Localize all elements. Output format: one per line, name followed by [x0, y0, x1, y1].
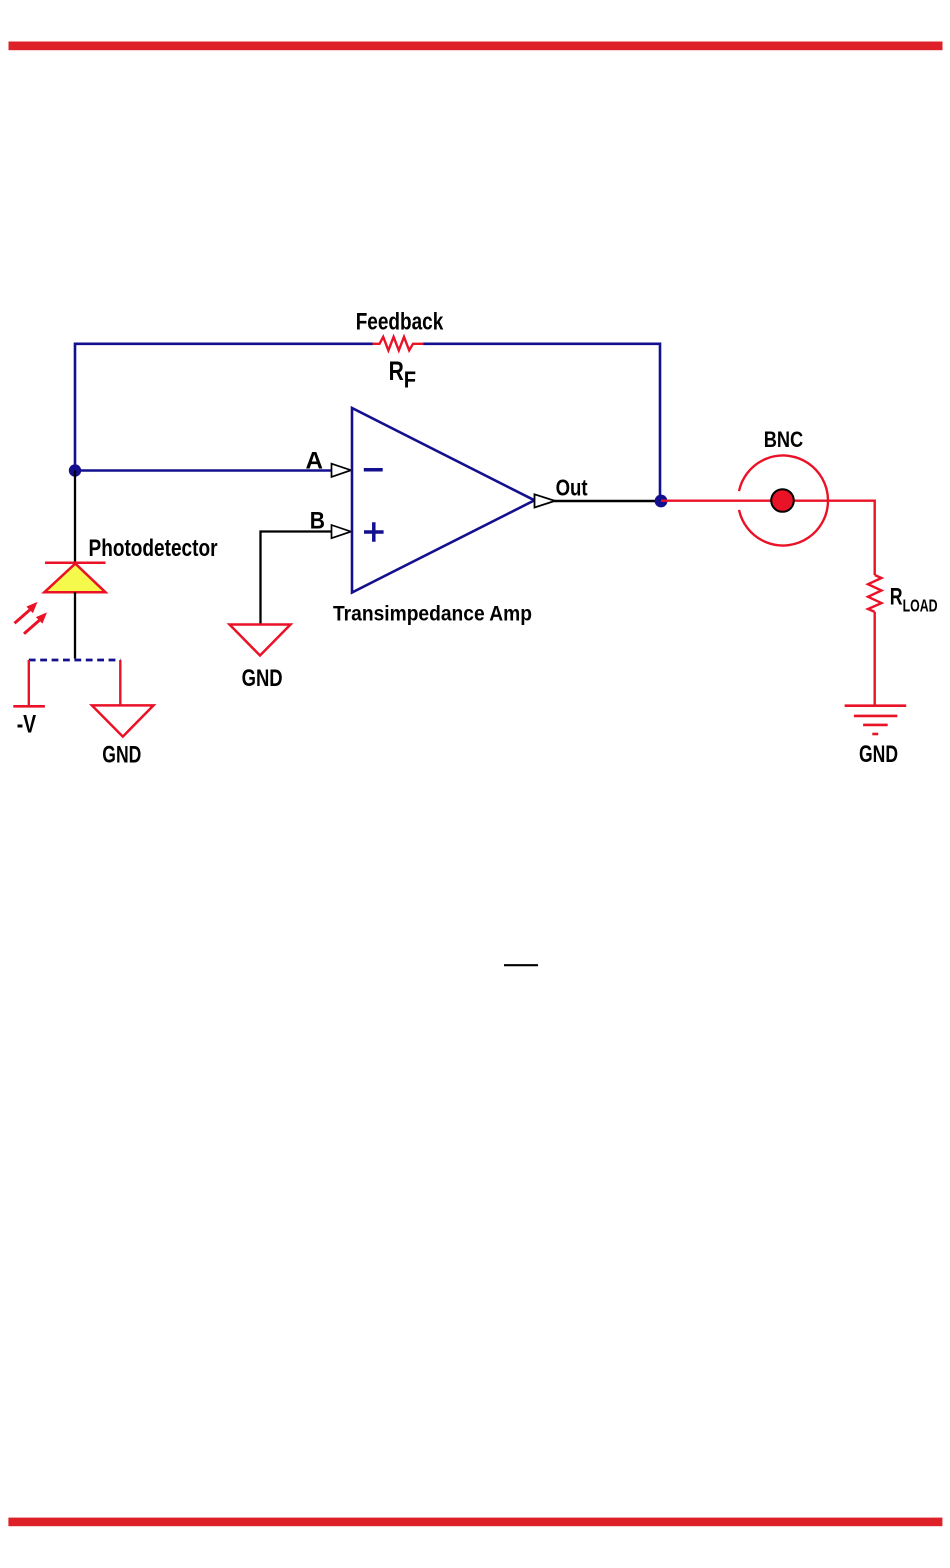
resistor RLOAD zigzag [868, 575, 882, 612]
supply -V bar [13, 705, 45, 708]
wire: output node to BNC and load corner (red) [661, 501, 875, 575]
svg-text:LOAD: LOAD [903, 595, 938, 615]
svg-text:R: R [890, 583, 903, 610]
svg-text:GND: GND [242, 665, 283, 692]
svg-text:GND: GND [859, 741, 898, 768]
connector BNC center pin [771, 489, 794, 512]
svg-text:F: F [404, 367, 416, 393]
wire: ground to op-amp input B (black, L-shape) [261, 532, 333, 625]
photodetector D1 body [44, 564, 105, 593]
wire: to -V supply (red) [28, 660, 30, 706]
wire: photodetector anode down (black) [74, 592, 76, 658]
svg-text:BNC: BNC [764, 427, 804, 452]
ground: earth GND (output load) [845, 706, 907, 734]
svg-text:-V: -V [17, 711, 37, 739]
svg-text:Transimpedance Amp: Transimpedance Amp [333, 603, 532, 626]
pin arrow output [535, 494, 556, 507]
wire: to left GND (red) [119, 660, 121, 705]
light arrow 2 [36, 612, 47, 623]
svg-text:R: R [389, 356, 404, 386]
wire: feedback loop right segment (RF across and down to output node) [423, 344, 661, 501]
svg-text:A: A [306, 448, 324, 475]
wire: feedback loop left segment (node A up and across to RF) [75, 344, 374, 471]
svg-text:GND: GND [102, 742, 141, 769]
light arrow 1 [26, 602, 37, 613]
op-amp U1 Transimpedance Amp [352, 408, 535, 593]
node: inverting input node [69, 464, 81, 476]
ground GND (op-amp input B) [230, 625, 291, 656]
svg-text:Photodetector: Photodetector [89, 535, 218, 562]
photodetector D1 cathode bar [45, 562, 106, 565]
svg-text:Feedback: Feedback [356, 308, 444, 335]
connector BNC shield arc [739, 456, 828, 546]
ground GND (photodetector) [92, 705, 154, 736]
pin arrow input A [332, 464, 352, 477]
short line (caption dash) [504, 964, 538, 966]
svg-text:Out: Out [556, 474, 588, 500]
op-amp plus sign [364, 522, 384, 542]
wire: dashed bias net (blue dashed) [29, 659, 121, 662]
op-amp minus sign [364, 468, 383, 472]
wire: node to photodetector cathode (black) [74, 471, 76, 568]
wire: RLOAD to earth ground (red) [874, 612, 876, 706]
pin arrow input B [332, 525, 352, 538]
wire: op-amp output to node (black) [554, 500, 661, 503]
resistor RF zigzag [373, 337, 424, 351]
node: output node [655, 495, 668, 508]
wire: node to op-amp input A (blue) [75, 469, 332, 472]
